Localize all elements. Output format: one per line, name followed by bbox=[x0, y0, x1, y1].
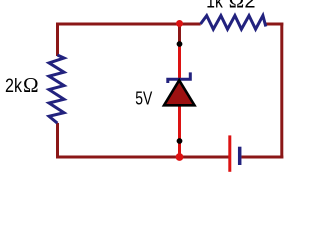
junction node top (red dot) bbox=[176, 20, 183, 27]
wire left vertical lower lead bbox=[56, 123, 59, 159]
svg-text:2k: 2k bbox=[5, 75, 22, 97]
resistor R1 2kOhm zigzag bbox=[49, 55, 64, 123]
svg-text:Ω: Ω bbox=[229, 0, 245, 13]
svg-text:2: 2 bbox=[244, 0, 255, 13]
wire bottom-left segment bbox=[56, 156, 229, 159]
wire top-right stub bbox=[264, 23, 283, 26]
battery V1 positive plate bbox=[228, 135, 231, 171]
wire middle lower (bright red through zener) bbox=[178, 44, 181, 157]
svg-text:1k: 1k bbox=[206, 0, 223, 13]
probe node lower (black dot) bbox=[177, 138, 183, 144]
junction node bottom (red dot) bbox=[176, 153, 184, 161]
svg-text:5V: 5V bbox=[135, 88, 152, 108]
battery V1 negative plate bbox=[238, 147, 242, 165]
wire top-left segment bbox=[56, 23, 201, 26]
svg-text:Ω: Ω bbox=[23, 73, 39, 97]
wire bottom-right segment bbox=[241, 156, 283, 159]
wire middle upper (node to junction) bbox=[178, 24, 181, 44]
zener diode D1 cathode bar bbox=[168, 72, 191, 83]
wire left vertical upper lead bbox=[56, 23, 59, 57]
resistor R2 1kOhm zigzag bbox=[201, 16, 266, 30]
probe node upper (black dot) bbox=[177, 41, 183, 47]
zener diode D1 triangle bbox=[164, 80, 195, 105]
wire right vertical bbox=[280, 23, 283, 159]
